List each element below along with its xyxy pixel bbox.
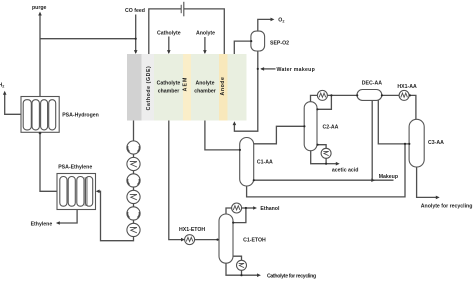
wire C2-AA reboiler return: [325, 158, 327, 164]
wire anolyte arrow: [204, 37, 206, 53]
vessel PSA-Ethylene: [57, 174, 96, 210]
arrow CO feed down: [134, 50, 138, 54]
wire H2 outlet: [5, 94, 21, 114]
svg-text:Anolyte: Anolyte: [196, 30, 215, 36]
vessel PSA-Hydrogen: [21, 97, 59, 133]
wire HX1-ETOH to C1-ETOH: [195, 239, 220, 241]
wire PSA-Ethylene to PSA-Hydrogen: [40, 134, 57, 192]
svg-text:Catholyte for recycling: Catholyte for recycling: [267, 273, 316, 279]
svg-text:AEM: AEM: [183, 77, 189, 92]
wire cathode gas to compressor train: [133, 121, 135, 142]
wire anode gas to SEP-O2: [234, 41, 251, 54]
arrow O2 right: [271, 18, 275, 22]
drum DEC-AA: [357, 90, 382, 101]
condenser C1-ETOH: [232, 203, 242, 213]
wire C2-AA top to condenser: [311, 95, 318, 101]
node C2-AA reboiler draw: [316, 144, 318, 146]
wire DEC-AA bottoms to makeup junction: [371, 100, 373, 180]
arrow makeup right: [371, 178, 375, 182]
arrow ethylene left: [56, 221, 60, 225]
cooler HX train 2: [127, 190, 140, 203]
wire anolyte outlet to C1-AA: [205, 121, 240, 150]
electrolyzer right anolyte zone: [228, 54, 247, 121]
wire: [133, 171, 135, 175]
electrolyzer catholyte chamber: [154, 54, 183, 121]
electrolyzer cathode GDE dark strip: [127, 54, 142, 121]
svg-text:Anolyte for recycling: Anolyte for recycling: [421, 203, 473, 209]
node C1-ETOH reflux return: [232, 222, 234, 224]
wire catholyte outlet to HX1-ETOH: [169, 121, 183, 240]
svg-text:Ethanol: Ethanol: [260, 206, 280, 212]
vessel SEP-O2: [251, 31, 265, 51]
node C2-AA reflux split: [330, 94, 332, 96]
electrolyzer AEM membrane: [183, 54, 191, 121]
arrow catholyte down: [167, 50, 171, 54]
wire C1-ETOH reboiler return: [241, 270, 243, 275]
svg-text:DEC-AA: DEC-AA: [362, 81, 382, 87]
svg-text:chamber: chamber: [158, 89, 180, 95]
wire acetic acid outlet: [326, 163, 338, 165]
svg-text:C2-AA: C2-AA: [323, 125, 339, 131]
arrow into PSA-Ethylene left: [96, 190, 100, 194]
wire O2 outlet: [258, 19, 273, 31]
wire C1-AA top to C2-AA feed: [254, 126, 305, 144]
svg-text:Anode: Anode: [220, 77, 226, 96]
electrolyzer anode strip: [219, 54, 228, 121]
svg-text:HX1-ETOH: HX1-ETOH: [179, 227, 205, 233]
node SEP-O2 inlet: [250, 40, 252, 42]
arrow acetic acid right: [336, 162, 340, 166]
arrow H2 up: [3, 91, 7, 95]
wire: [133, 187, 135, 190]
node acetic acid junction: [325, 163, 327, 165]
cooler HX train 1: [127, 157, 140, 170]
wire CO feed down: [135, 15, 137, 54]
wire condenser to DEC-AA: [327, 94, 357, 96]
svg-text:PSA-Ethylene: PSA-Ethylene: [58, 164, 92, 170]
svg-text:CO feed: CO feed: [125, 8, 145, 14]
node ethanol split: [245, 207, 247, 209]
wire C2-AA bottoms to reboiler junction: [311, 151, 326, 164]
wire DEC-AA bottoms to C3-AA feed: [378, 100, 409, 143]
wire water makeup inlet: [261, 68, 276, 70]
node C1-ETOH feed: [216, 239, 218, 241]
svg-text:Ethylene: Ethylene: [31, 222, 53, 228]
wire DEC-AA to HX1-AA: [382, 94, 399, 96]
wire cathode to battery: [149, 9, 181, 54]
svg-text:C3-AA: C3-AA: [428, 140, 444, 146]
arrow ethanol right: [253, 206, 257, 210]
column C1-ETOH: [219, 214, 233, 263]
column C1-AA: [240, 138, 254, 187]
node into PSA-Hydrogen: [39, 132, 42, 135]
svg-text:H2: H2: [0, 83, 4, 89]
wire gas feed into PSA-Ethylene: [97, 191, 133, 240]
compressor K2: [127, 174, 140, 187]
svg-text:C1-ETOH: C1-ETOH: [243, 238, 266, 244]
wire SEP-O2 bottoms water return: [234, 51, 257, 131]
node DEC-AA inlet: [356, 94, 358, 96]
wire C3-AA bottoms anolyte recycle: [417, 167, 438, 197]
arrow into HX1-ETOH right: [181, 238, 185, 242]
reboiler C2-AA: [321, 148, 331, 158]
wire battery to anode: [184, 9, 224, 54]
wire catholyte arrow: [168, 37, 170, 54]
node catholyte recycle junction: [240, 274, 242, 276]
svg-text:acetic acid: acetic acid: [332, 168, 359, 174]
arrow catholyte recycle right: [257, 273, 261, 277]
wire C2-AA reboiler draw: [317, 145, 326, 149]
condenser C2-AA: [317, 90, 327, 100]
svg-text:SEP-O2: SEP-O2: [270, 40, 289, 46]
svg-text:purge: purge: [32, 5, 47, 11]
node C3-AA feed junction: [404, 143, 406, 145]
battery power supply: [181, 2, 184, 16]
svg-text:Cathode (GDE): Cathode (GDE): [146, 66, 152, 111]
node junction CO feed recycle: [135, 38, 137, 40]
wire C1-ETOH reflux: [233, 208, 246, 223]
svg-text:PSA-Hydrogen: PSA-Hydrogen: [62, 113, 99, 119]
arrow anolyte recycle right: [436, 196, 440, 200]
node C1-AA feed: [239, 149, 241, 151]
compressor K1: [127, 141, 140, 154]
arrow water return up: [233, 121, 237, 125]
node C1-AA side outlet: [253, 179, 255, 181]
arrow anolyte down: [203, 50, 207, 54]
node C2-AA reflux return: [316, 108, 318, 110]
heat exchanger HX1-AA: [399, 90, 409, 100]
node C2-AA feed: [303, 125, 305, 127]
wire ethylene outlet: [58, 210, 78, 224]
wire C1-AA bottoms to C3-AA feed riser: [247, 144, 405, 197]
compressor K3: [127, 207, 140, 220]
wire C1-ETOH top to condenser: [226, 208, 232, 214]
wire C2-AA reflux: [317, 95, 331, 109]
svg-text:Anolyte: Anolyte: [195, 81, 214, 87]
svg-text:O2: O2: [278, 18, 284, 24]
electrolyzer anolyte chamber: [191, 54, 219, 121]
reboiler C1-ETOH: [237, 260, 247, 270]
heat exchanger HX1-ETOH: [185, 235, 195, 245]
svg-text:HX1-AA: HX1-AA: [397, 84, 417, 90]
node C3-AA feed inlet: [408, 143, 410, 145]
wire train connectors: [133, 154, 135, 158]
wire purge vertical: [39, 15, 41, 96]
column C2-AA: [304, 102, 317, 151]
wire condenser to ethanol arrow: [242, 207, 256, 209]
svg-text:chamber: chamber: [194, 89, 216, 95]
svg-text:Catholyte: Catholyte: [157, 30, 181, 36]
node HX1-AA outlet: [409, 94, 411, 96]
wire C1-ETOH reboiler draw: [233, 256, 242, 260]
arrow water makeup left: [260, 67, 264, 71]
wire C1-ETOH bottoms catholyte recycle: [226, 263, 259, 275]
svg-text:Water makeup: Water makeup: [277, 67, 316, 73]
wire HX1-AA to C3-AA: [409, 95, 416, 119]
column C3-AA: [409, 119, 424, 167]
wire C1-AA side stream makeup line: [254, 179, 394, 181]
node water makeup junction: [257, 68, 259, 70]
cooler HX train 3: [127, 223, 140, 236]
wire recycle horizontal to CO feed: [40, 38, 136, 40]
svg-text:Makeup: Makeup: [379, 174, 398, 180]
wire: [133, 220, 135, 224]
wire: [133, 203, 135, 207]
svg-text:Catholyte: Catholyte: [157, 81, 181, 87]
node DEC-AA outlet: [381, 94, 383, 96]
svg-text:C1-AA: C1-AA: [257, 160, 273, 166]
electrolyzer cathode GDE light strip: [142, 54, 155, 121]
arrow purge up: [38, 12, 42, 16]
